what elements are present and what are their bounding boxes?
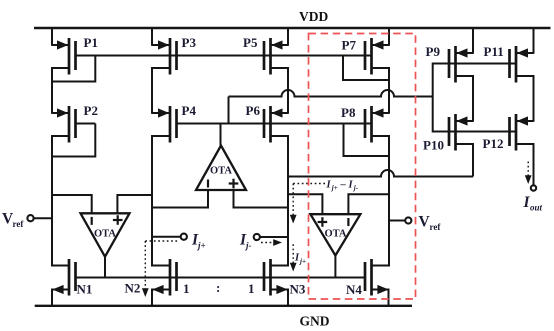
svg-text:P2: P2 — [84, 103, 98, 118]
transistor N3 (NMOS mirrored) — [264, 259, 306, 297]
transistor P5 (PMOS mirrored) — [243, 35, 288, 75]
svg-text:GND: GND — [300, 314, 330, 329]
gate bus P1-P3-P5-P7 — [76, 55, 372, 57]
wire gate feed to right mirror with hops — [229, 90, 433, 97]
transistor P12 (PMOS mirrored) — [483, 114, 534, 151]
terminal Vref left wire — [33, 217, 52, 219]
svg-text:1: 1 — [183, 281, 190, 296]
gate bus P4-P6-P8 — [177, 123, 372, 125]
gate bus N1-N2-N3-N4 — [76, 277, 366, 279]
svg-text:P5: P5 — [243, 35, 258, 50]
annotation Ij- current arrow — [261, 239, 282, 246]
transistor P10 (PMOS mirrored) — [423, 114, 473, 153]
OTA3 non-inverting input mark — [318, 217, 328, 227]
wire N4 source to GND — [388, 289, 390, 307]
terminal Ij- wire — [260, 236, 289, 238]
annotation Ij+-Ij- current arrow — [290, 184, 326, 224]
wire VDD to P11 source — [533, 28, 535, 54]
OTA1 non-inverting input mark — [113, 215, 123, 225]
svg-text:j+: j+ — [331, 184, 338, 192]
op-amp OTA2 (center, points up) — [196, 146, 246, 191]
wire P2 drain / Vref / N1 drain column — [51, 135, 53, 267]
GND power rail — [35, 305, 412, 307]
label Ij- — [239, 232, 252, 251]
OTA3 inverting input mark — [347, 218, 349, 226]
label ratio 1 right — [248, 281, 255, 296]
gate bus P9-P11 — [433, 63, 516, 65]
gate bus P10-P12 — [433, 131, 516, 133]
wire P8 diode connection gate-to-drain — [344, 124, 390, 157]
wire OTA3 plus input to node C — [288, 194, 322, 214]
svg-text:P12: P12 — [483, 136, 504, 151]
transistor P8 (PMOS diode mirrored) — [341, 105, 389, 143]
wire VDD to P9 source — [472, 28, 474, 54]
transistor P11 (PMOS mirrored) — [484, 44, 534, 83]
svg-text:j+: j+ — [196, 240, 206, 250]
wire OTA1 minus input to node A — [52, 195, 92, 213]
label Iout — [523, 194, 543, 213]
terminal Ij+ wire — [152, 236, 181, 238]
transistor N2 (NMOS) — [125, 259, 177, 296]
annotation Ij+ current arrow at N3 — [290, 244, 297, 271]
transistor P4 (PMOS) — [152, 103, 196, 143]
wire OTA2 minus input to node B — [152, 190, 208, 208]
wire OTA3 output to N gate bus — [334, 255, 336, 278]
wire P3 drain to P4 source — [151, 67, 153, 114]
wire P7 diode connection gate-to-drain — [343, 56, 389, 81]
GND label — [300, 314, 330, 329]
wire OTA2 plus input to node C — [234, 190, 289, 208]
svg-text:P7: P7 — [342, 38, 357, 53]
svg-text:P9: P9 — [426, 44, 441, 59]
wire VDD to P5 source — [287, 28, 289, 46]
svg-text:N1: N1 — [77, 282, 93, 297]
wire P9 drain to P10 source — [472, 75, 474, 122]
wire N3 source to GND — [287, 289, 289, 307]
wire P8 drain / N4 drain column — [388, 135, 390, 267]
wire riser gate-feed to P9-P12 block — [228, 97, 230, 124]
label Ij+-Ij- — [326, 180, 359, 193]
svg-text:P11: P11 — [484, 44, 504, 59]
svg-text::: : — [216, 280, 220, 295]
transistor P7 (PMOS diode mirrored) — [342, 38, 390, 75]
wire OTA1 plus input to node B — [117, 195, 152, 213]
svg-text:P1: P1 — [84, 35, 98, 50]
svg-text:j-: j- — [244, 240, 252, 250]
svg-text:ref: ref — [13, 219, 25, 229]
wire N2 source to GND — [151, 289, 153, 307]
svg-text:P3: P3 — [182, 35, 197, 50]
wire OTA3 minus input to node D — [348, 194, 389, 214]
svg-text:P8: P8 — [341, 105, 356, 120]
wire P1 diode connection drain-to-gate — [52, 56, 95, 82]
wire P2 diode connection drain-to-gate — [52, 124, 95, 157]
VDD power rail — [34, 27, 551, 29]
transistor N1 (NMOS) — [52, 259, 92, 297]
wire P7 drain to P8 source — [388, 67, 390, 114]
annotation Iout current arrow — [525, 162, 532, 185]
OTA1 inverting input mark — [91, 217, 93, 225]
dashed selection box (translinear cell) — [309, 34, 416, 300]
wire VDD to P3 source — [151, 28, 153, 46]
svg-text:OTA: OTA — [325, 228, 347, 239]
svg-text:N4: N4 — [346, 282, 362, 297]
wire P6 drain / N3 drain column — [287, 135, 289, 267]
transistor P2 (PMOS diode) — [52, 103, 98, 143]
svg-text:–: – — [340, 180, 347, 191]
label Ij+ at N3 — [294, 253, 306, 266]
op-amp OTA1 (left) — [81, 213, 130, 256]
svg-text:P4: P4 — [182, 103, 197, 118]
wire OTA2 output to gate bus — [220, 124, 222, 147]
wire VDD to P7 source — [388, 28, 390, 46]
terminal Vref left — [27, 215, 33, 221]
svg-text:ref: ref — [430, 222, 442, 232]
label ratio 1 — [183, 281, 190, 296]
OTA2 non-inverting input mark — [229, 179, 239, 189]
label ratio colon — [216, 280, 220, 295]
wire VDD to P1 source — [51, 28, 53, 46]
label Vref left — [2, 211, 24, 230]
transistor P1 (PMOS diode) — [52, 35, 98, 75]
label Ij+ — [191, 232, 206, 251]
wire N1 source to GND — [51, 289, 53, 307]
wire P1 drain to P2 source (node) — [51, 67, 53, 114]
label Vref right — [419, 214, 442, 233]
op-amp OTA3 (right) — [310, 214, 360, 255]
terminal Ij- — [254, 234, 260, 240]
annotation Ij+ current arrow at N2 — [142, 241, 178, 297]
wire P4 drain / N2 drain column — [151, 135, 153, 267]
svg-text:N3: N3 — [290, 282, 306, 297]
transistor P6 (PMOS mirrored) — [246, 103, 289, 143]
svg-text:OTA: OTA — [210, 166, 232, 177]
svg-text:OTA: OTA — [94, 228, 116, 239]
svg-text:1: 1 — [248, 281, 255, 296]
OTA2 inverting input mark — [207, 180, 209, 188]
wire riser P9-P12 gate tie — [432, 63, 434, 133]
terminal Ij+ — [181, 234, 187, 240]
transistor N4 (NMOS mirrored) — [346, 259, 389, 297]
VDD label — [299, 9, 328, 24]
gate stub P2 diode — [76, 123, 96, 125]
terminal Iout — [531, 185, 536, 190]
wire P11 drain to P12 source — [533, 75, 535, 122]
wire P12 drain to Iout terminal — [533, 143, 535, 185]
svg-text:P10: P10 — [423, 138, 444, 153]
svg-text:VDD: VDD — [299, 9, 328, 24]
terminal Vref right wire — [389, 220, 406, 222]
wire P10 drain down to output line — [472, 143, 474, 177]
svg-text:N2: N2 — [125, 281, 141, 296]
transistor P9 (PMOS mirrored) — [426, 44, 474, 83]
wire P10 drain to node C with hop — [288, 170, 473, 177]
svg-text:j-: j- — [353, 184, 359, 192]
wire P5 drain to P6 source — [287, 67, 289, 114]
svg-text:j+: j+ — [299, 258, 306, 266]
transistor P3 (PMOS) — [152, 35, 196, 75]
wire OTA1 output to N gate bus — [104, 256, 106, 278]
terminal Vref right — [405, 217, 411, 223]
svg-text:P6: P6 — [246, 103, 261, 118]
svg-text:out: out — [530, 203, 543, 213]
